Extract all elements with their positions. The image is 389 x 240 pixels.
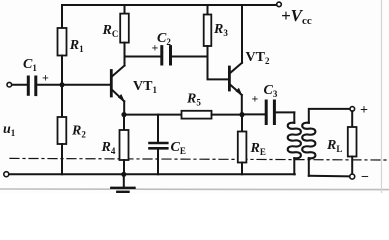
node VT1 emitter xyxy=(121,112,126,117)
capacitor C3 xyxy=(252,83,278,124)
wire C2 to R3 xyxy=(172,56,208,58)
wire top +Vcc rail xyxy=(62,4,277,6)
node ground xyxy=(121,172,126,177)
terminal output + xyxy=(350,107,355,112)
wire VT2 emitter to C3 xyxy=(242,113,265,115)
wire R3 to VT2 base xyxy=(208,57,229,80)
transformer secondary winding xyxy=(302,123,315,176)
wire VT2 collector to rail xyxy=(241,5,243,63)
center line xyxy=(10,158,386,160)
resistor RE xyxy=(238,115,266,175)
terminal output - xyxy=(350,174,355,179)
node VT1 base xyxy=(60,82,65,87)
wire secondary bottom to - terminal xyxy=(309,175,350,178)
wire bottom rail xyxy=(9,173,295,175)
wire VT1 base xyxy=(62,84,110,86)
resistor RC xyxy=(102,5,129,57)
wire VT1 collector xyxy=(124,57,126,66)
wire emitter VT1 to R5 xyxy=(124,114,182,116)
terminal input top xyxy=(7,82,12,87)
wire VT2 emitter down xyxy=(241,95,243,115)
wire VT1 emitter down xyxy=(123,101,125,114)
resistor R5 xyxy=(182,92,212,119)
node VT2 emitter xyxy=(239,112,244,117)
svg-text:−: − xyxy=(361,170,369,185)
wire R5 to VT2 emitter xyxy=(212,114,243,116)
svg-text:+: + xyxy=(252,92,259,106)
resistor R3 xyxy=(204,5,229,57)
terminal +Vcc xyxy=(277,2,282,7)
capacitor C2 xyxy=(152,31,172,64)
wire secondary to + terminal xyxy=(309,109,350,123)
resistor R1 xyxy=(58,5,85,85)
wire C2 branch xyxy=(125,56,161,58)
resistor R2 xyxy=(58,85,87,175)
svg-text:+: + xyxy=(42,71,49,85)
capacitor CE xyxy=(150,115,186,175)
svg-text:+: + xyxy=(360,103,368,118)
resistor R4 xyxy=(101,115,129,175)
transistor VT1 xyxy=(111,66,157,103)
transistor VT2 xyxy=(229,50,270,96)
capacitor C1 xyxy=(12,57,62,95)
wire C3 to transformer primary xyxy=(276,111,294,113)
terminal input bottom xyxy=(4,172,9,177)
resistor RL xyxy=(326,111,357,174)
ground xyxy=(111,174,134,192)
transformer primary winding xyxy=(288,112,301,174)
